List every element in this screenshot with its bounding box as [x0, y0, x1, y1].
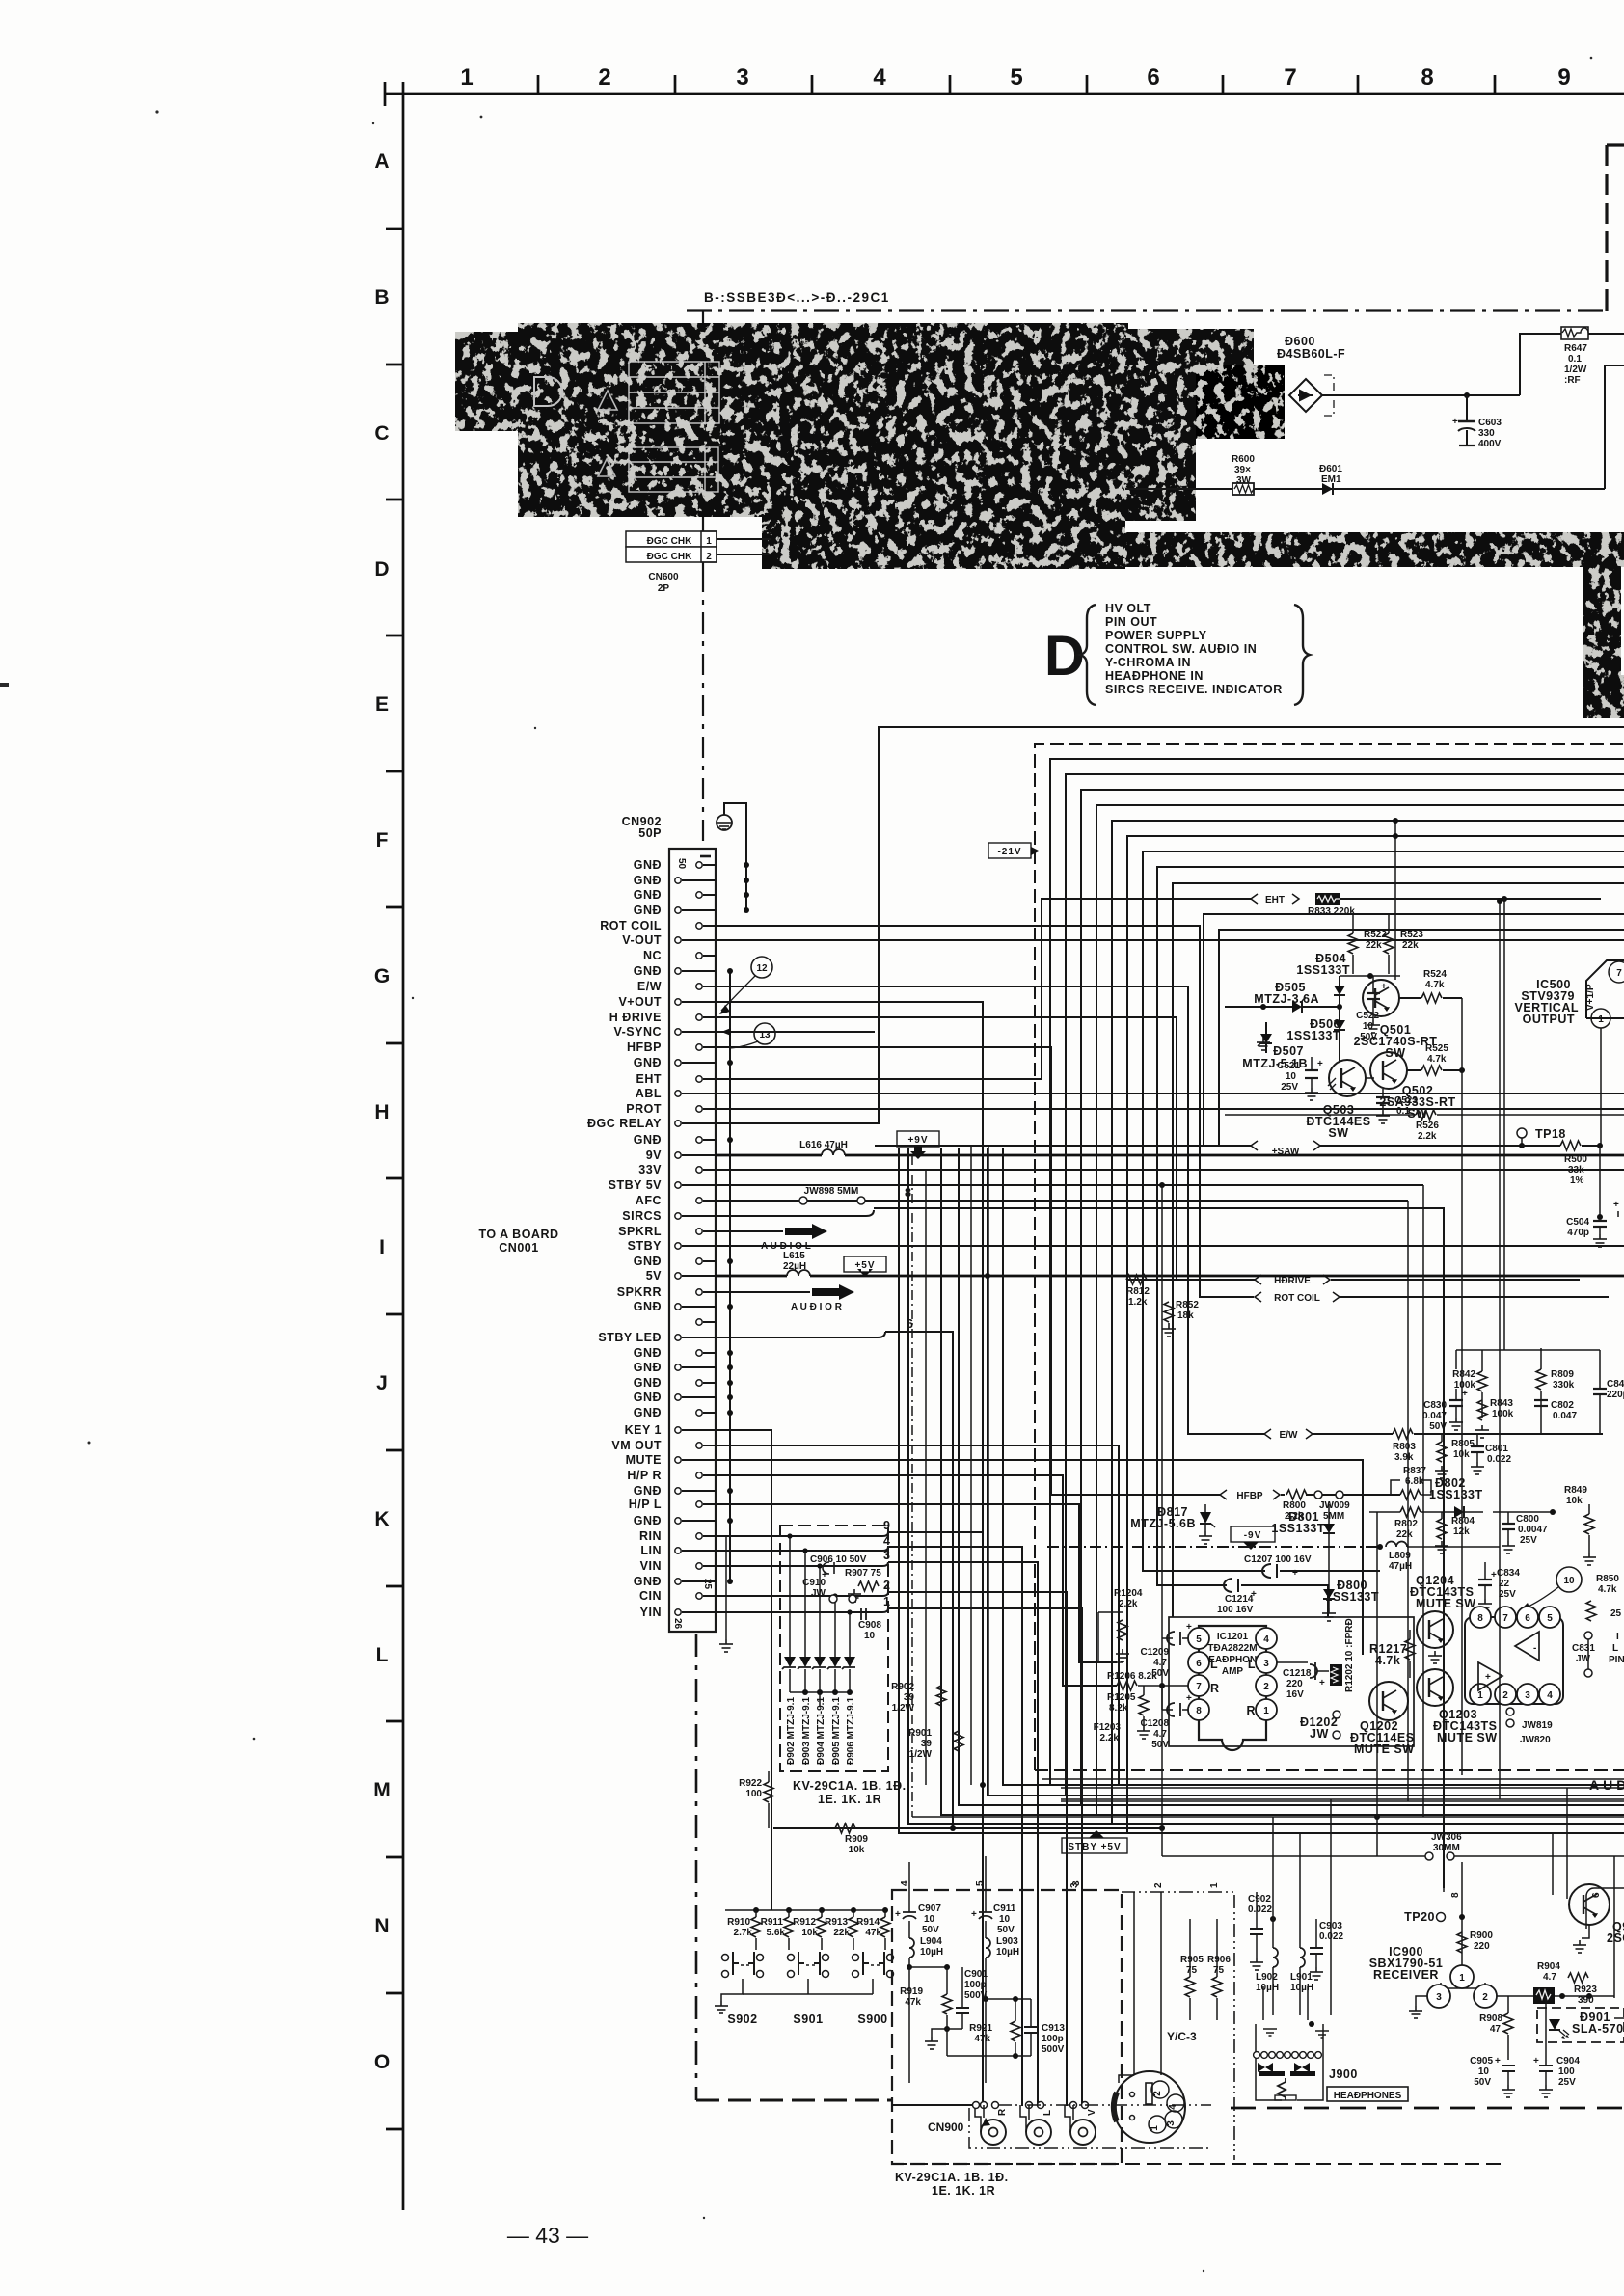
svg-text:L904: L904	[920, 1936, 942, 1947]
svg-text:C901: C901	[964, 1969, 988, 1980]
svg-text:8.2k: 8.2k	[1109, 1703, 1128, 1714]
svg-text:N: N	[374, 1915, 389, 1937]
svg-text:220pF: 220pF	[1607, 1390, 1624, 1400]
svg-text:R: R	[1210, 1682, 1220, 1695]
svg-text:R647: R647	[1564, 343, 1587, 354]
svg-text:3.9k: 3.9k	[1394, 1452, 1414, 1463]
wire trunk x1447	[1394, 821, 1396, 980]
dash-dot jack bus	[998, 2104, 1211, 2106]
svg-text:Ð903 MTZJ-9.1: Ð903 MTZJ-9.1	[801, 1697, 812, 1765]
svg-text:YIN: YIN	[640, 1606, 662, 1619]
svg-text:9V: 9V	[646, 1148, 662, 1162]
faint D letter	[534, 377, 562, 406]
wire row y1868	[1061, 1800, 1624, 1802]
wire trunk x1007	[970, 1146, 972, 1785]
svg-text:D: D	[1044, 625, 1085, 688]
svg-text:R902: R902	[891, 1682, 914, 1692]
svg-text:R843: R843	[1490, 1398, 1513, 1409]
resistor R914	[882, 1907, 888, 1913]
svg-text:22µH: 22µH	[783, 1261, 806, 1272]
wire ROT COIL	[716, 926, 1254, 1297]
svg-text:GNĐ: GNĐ	[634, 1514, 662, 1527]
svg-text:Y/C-3: Y/C-3	[1167, 2030, 1197, 2043]
svg-text:R907 75: R907 75	[845, 1568, 881, 1579]
svg-text:C906 10 50V: C906 10 50V	[810, 1554, 867, 1565]
svg-text:VM OUT: VM OUT	[611, 1439, 662, 1452]
svg-text:R919: R919	[900, 1986, 923, 1997]
svg-text:PIN-C: PIN-C	[1609, 1655, 1624, 1665]
svg-text:GNĐ: GNĐ	[634, 964, 662, 978]
svg-text:ROT COIL: ROT COIL	[600, 919, 662, 932]
svg-text:STBY 5V: STBY 5V	[609, 1178, 663, 1192]
svg-text:GNĐ: GNĐ	[634, 1484, 662, 1498]
svg-text:3W: 3W	[1236, 475, 1252, 486]
svg-text:PROT: PROT	[626, 1102, 662, 1116]
svg-text:50V: 50V	[1151, 1740, 1169, 1750]
svg-text:500V: 500V	[964, 1990, 988, 2001]
svg-text:4.7: 4.7	[1153, 1729, 1167, 1740]
svg-text:1SS133T: 1SS133T	[1429, 1488, 1483, 1501]
row letters	[373, 150, 391, 2073]
resistor R922	[739, 1771, 773, 1828]
svg-text:R909: R909	[845, 1834, 868, 1845]
svg-text:CIN: CIN	[639, 1589, 662, 1603]
svg-text:+: +	[1186, 1622, 1192, 1633]
svg-text:400V: 400V	[1478, 439, 1502, 449]
svg-text:GNĐ: GNĐ	[634, 858, 662, 872]
svg-text:C800: C800	[1516, 1514, 1539, 1525]
svg-text:1SS133T: 1SS133T	[1296, 963, 1350, 977]
svg-text:MUTE SW: MUTE SW	[1437, 1731, 1498, 1744]
bottom dashed edge	[892, 2163, 1504, 2165]
svg-text:STBY LEĐ: STBY LEĐ	[598, 1331, 662, 1344]
Y/C-3 dash-dot box	[1122, 1892, 1234, 2160]
svg-text:C1207 100 16V: C1207 100 16V	[1244, 1554, 1312, 1565]
svg-text:H: H	[374, 1101, 389, 1123]
svg-text:JW: JW	[1310, 1727, 1329, 1741]
resistor R805	[1437, 1442, 1447, 1462]
resistor R526	[1416, 1110, 1436, 1120]
svg-text:10: 10	[864, 1631, 876, 1641]
svg-text:0.047: 0.047	[1553, 1411, 1577, 1421]
svg-text:SIRCS RECEIVE. INÐICATOR: SIRCS RECEIVE. INÐICATOR	[1105, 683, 1283, 696]
wire loop y948	[1204, 914, 1624, 1146]
capacitor C1209	[1167, 1632, 1180, 1645]
svg-text:R524: R524	[1423, 969, 1447, 980]
capacitor C830	[1449, 1400, 1463, 1406]
svg-text:4: 4	[883, 1534, 890, 1548]
svg-text:0.047: 0.047	[1422, 1411, 1447, 1421]
wire bus y1892	[908, 1148, 1624, 1824]
svg-text:-21V: -21V	[997, 847, 1021, 857]
zener D906	[849, 1612, 851, 1657]
capacitor C800	[1502, 1524, 1515, 1529]
svg-text:R904: R904	[1537, 1961, 1560, 1972]
test point TP18	[1517, 1128, 1527, 1138]
dash-dot -9V rail	[1047, 1546, 1380, 1548]
ground stub left	[725, 1536, 727, 1639]
resistor R902	[936, 1686, 946, 1706]
resistor R852	[1164, 1302, 1174, 1322]
svg-text:GNĐ: GNĐ	[634, 1300, 662, 1313]
svg-text:R522: R522	[1364, 930, 1387, 940]
svg-text:R: R	[1246, 1704, 1256, 1717]
zener D903	[804, 1551, 806, 1657]
svg-text:MTZJ-3.6A: MTZJ-3.6A	[1254, 992, 1319, 1006]
svg-text:CN600: CN600	[648, 572, 679, 582]
svg-text:1: 1	[1459, 1973, 1465, 1984]
svg-text:2.2k: 2.2k	[1119, 1599, 1138, 1609]
svg-text:8: 8	[1450, 1892, 1461, 1898]
wire CIN	[716, 1595, 882, 1597]
svg-text:6: 6	[1147, 65, 1159, 91]
svg-text:JW306: JW306	[1431, 1832, 1462, 1843]
wire trunk x1205	[1161, 1185, 1163, 1828]
wire PROT	[716, 1108, 1624, 1110]
svg-text:2: 2	[1263, 1682, 1269, 1692]
svg-text:10: 10	[924, 1914, 935, 1925]
blob main polygon	[455, 323, 1624, 718]
svg-text:12: 12	[756, 963, 768, 974]
svg-text:5: 5	[975, 1880, 986, 1886]
svg-text:KEY 1: KEY 1	[625, 1423, 662, 1437]
svg-text:ABL: ABL	[636, 1087, 662, 1100]
boundary bottom dashes to CN900 box	[696, 2099, 892, 2102]
wire SIRCS	[716, 1215, 866, 1217]
left ruler ticks	[386, 229, 403, 2129]
svg-text:330k: 330k	[1553, 1380, 1575, 1391]
capacitor C523	[1376, 1097, 1390, 1103]
node at C603	[1464, 392, 1470, 398]
wire 5V with L615	[716, 1275, 787, 1278]
svg-text:GNĐ: GNĐ	[634, 1376, 662, 1390]
svg-text:V-OUT: V-OUT	[622, 933, 662, 947]
wire loop x1105	[1066, 774, 1624, 1796]
wire H/P R	[716, 1475, 1117, 1686]
svg-text:1.2k: 1.2k	[1128, 1297, 1148, 1308]
transistor Q501	[1363, 980, 1399, 1016]
svg-text:HV OLT: HV OLT	[1105, 602, 1151, 615]
svg-text:GNĐ: GNĐ	[634, 1133, 662, 1147]
svg-text:1/2W: 1/2W	[892, 1703, 915, 1714]
svg-text:ĐGC RELAY: ĐGC RELAY	[587, 1117, 662, 1130]
svg-text:L903: L903	[996, 1936, 1018, 1947]
svg-text:3: 3	[1525, 1690, 1530, 1701]
svg-text:Ð4SB60L-F: Ð4SB60L-F	[1277, 347, 1345, 361]
wire bus y1882	[941, 1148, 1624, 1815]
svg-text:4: 4	[1263, 1634, 1269, 1645]
wire +SAW	[875, 1145, 1252, 1147]
svg-text:-9V: -9V	[1244, 1530, 1262, 1541]
svg-text:JW820: JW820	[1520, 1735, 1551, 1745]
svg-text:R842: R842	[1452, 1369, 1475, 1380]
svg-text:100p: 100p	[964, 1980, 987, 1990]
svg-text:LIN: LIN	[640, 1544, 662, 1557]
receiver symbol	[1441, 1983, 1485, 1988]
svg-text:R913: R913	[825, 1917, 848, 1928]
svg-text:5: 5	[1196, 1634, 1202, 1645]
wire 33V	[716, 1169, 1624, 1171]
svg-text:3: 3	[736, 65, 748, 91]
svg-text:220: 220	[1286, 1679, 1303, 1689]
svg-text:18k: 18k	[1177, 1310, 1194, 1321]
svg-text:500V: 500V	[1042, 2044, 1065, 2055]
svg-text:10µH: 10µH	[1290, 1983, 1313, 1993]
IC1201 pins	[1188, 1628, 1209, 1649]
svg-text:GNĐ: GNĐ	[634, 888, 662, 902]
svg-text:C802: C802	[1551, 1400, 1574, 1411]
svg-text:9: 9	[883, 1519, 890, 1532]
svg-text:GNĐ: GNĐ	[634, 1361, 662, 1374]
zener D904	[819, 1566, 821, 1657]
svg-text:GNĐ: GNĐ	[634, 1406, 662, 1419]
svg-text:C908: C908	[858, 1620, 881, 1631]
svg-text:+: +	[1292, 1568, 1298, 1579]
svg-text:A: A	[374, 150, 389, 173]
svg-text:C907: C907	[918, 1904, 941, 1914]
wires from CN600	[717, 538, 771, 540]
svg-text:25V: 25V	[1558, 2077, 1576, 2088]
svg-text:GNĐ: GNĐ	[634, 1255, 662, 1268]
svg-text:L: L	[1248, 1658, 1256, 1671]
wire STBY+5V	[773, 1827, 1162, 1829]
svg-text:MUTE SW: MUTE SW	[1416, 1597, 1476, 1610]
svg-text:1SS133T: 1SS133T	[1271, 1522, 1325, 1535]
svg-text:+9V: +9V	[907, 1135, 928, 1146]
svg-text:C830: C830	[1423, 1400, 1447, 1411]
wire loop x1169	[1127, 836, 1624, 1833]
svg-text:C504: C504	[1566, 1217, 1589, 1228]
wire HFBP	[716, 1047, 1221, 1495]
svg-text:25: 25	[702, 1579, 713, 1590]
svg-text:47k: 47k	[865, 1928, 881, 1938]
svg-text:1: 1	[460, 65, 473, 91]
capacitor C834	[1478, 1580, 1492, 1585]
svg-text:Ð905 MTZJ-9.1: Ð905 MTZJ-9.1	[831, 1697, 842, 1765]
svg-text:R900: R900	[1470, 1931, 1493, 1941]
wire Y/C pin3	[1133, 1892, 1135, 2075]
svg-text:10k: 10k	[801, 1928, 818, 1938]
svg-text:CN900: CN900	[928, 2120, 964, 2134]
node 12	[751, 957, 772, 978]
svg-text:V: V	[1087, 2109, 1097, 2116]
svg-text:C603: C603	[1478, 418, 1502, 428]
svg-text:3: 3	[1166, 2120, 1177, 2126]
svg-text:5V: 5V	[646, 1269, 662, 1283]
svg-text:9: 9	[1557, 65, 1570, 91]
svg-text:H/P R: H/P R	[627, 1469, 662, 1482]
svg-text:R805: R805	[1451, 1439, 1475, 1449]
svg-text:+: +	[1495, 2056, 1501, 2066]
svg-text:EM1: EM1	[1321, 474, 1341, 485]
resistor R843	[1477, 1400, 1487, 1420]
svg-text:HEAÐPHONE IN: HEAÐPHONE IN	[1105, 669, 1204, 683]
inductor L901	[1300, 1948, 1305, 1967]
wire bus y1862	[988, 1148, 1624, 1796]
svg-text:I: I	[379, 1236, 385, 1258]
wire loop x1216	[1173, 883, 1624, 1617]
svg-text:R812: R812	[1126, 1286, 1150, 1297]
top border line	[385, 93, 1624, 95]
wire DGC RELAY outer loop	[716, 727, 1624, 1123]
svg-text:7: 7	[1616, 968, 1622, 979]
svg-text::RF: :RF	[1564, 375, 1581, 386]
svg-text:220: 220	[1474, 1941, 1490, 1952]
svg-text:J: J	[376, 1372, 388, 1394]
svg-text:L615: L615	[783, 1251, 805, 1261]
svg-text:R526: R526	[1416, 1121, 1439, 1131]
svg-text:C905: C905	[1470, 2056, 1493, 2066]
node 13	[754, 1023, 775, 1044]
svg-text:IC1201: IC1201	[1217, 1632, 1249, 1642]
wire drop x1610	[1552, 1833, 1554, 1895]
long dash line bottom right	[1231, 2107, 1624, 2110]
svg-text:+: +	[1452, 417, 1458, 427]
pin 31 nc	[696, 1319, 702, 1325]
svg-text:Ð902 MTZJ-9.1: Ð902 MTZJ-9.1	[786, 1697, 797, 1765]
svg-text:8: 8	[1477, 1613, 1483, 1624]
svg-text:SLA-570KT: SLA-570KT	[1572, 2022, 1624, 2036]
wire STBY	[716, 1245, 1624, 1247]
svg-text:C1208: C1208	[1141, 1718, 1170, 1729]
svg-text:S901: S901	[793, 2012, 823, 2026]
svg-text:50V: 50V	[922, 1925, 939, 1935]
resistor R913	[851, 1907, 856, 1913]
connector CN902 50P	[587, 815, 716, 1632]
svg-text:22k: 22k	[1366, 940, 1382, 951]
inductor L902	[1273, 1948, 1278, 1967]
RCA jack R	[981, 2120, 1006, 2145]
wires jacks drop	[983, 2105, 985, 2118]
svg-text:Ð904 MTZJ-9.1: Ð904 MTZJ-9.1	[816, 1697, 826, 1765]
DGC CHK box 2	[626, 547, 717, 562]
outer box amp	[1169, 1617, 1414, 1746]
wire bridge to right	[1322, 394, 1520, 396]
svg-text:C1209: C1209	[1141, 1647, 1170, 1658]
svg-text:5: 5	[1547, 1613, 1553, 1624]
diode D507	[1260, 1034, 1272, 1043]
svg-text:GNĐ: GNĐ	[634, 874, 662, 887]
svg-text:V+1/P: V+1/P	[1585, 984, 1596, 1011]
capacitor C603	[1452, 395, 1502, 449]
zener D902	[789, 1536, 791, 1657]
inductor L903	[986, 1938, 990, 1958]
svg-text:25V: 25V	[1499, 1589, 1516, 1600]
svg-text:33k: 33k	[1568, 1165, 1584, 1175]
svg-text:R906: R906	[1207, 1955, 1231, 1965]
wire up right side to off-page	[1605, 365, 1624, 489]
node 10	[1556, 1567, 1582, 1592]
svg-text:K: K	[374, 1508, 389, 1530]
svg-text:25V: 25V	[1281, 1082, 1298, 1093]
svg-text:ÐGC CHK: ÐGC CHK	[647, 552, 692, 562]
svg-text:R849: R849	[1564, 1485, 1587, 1496]
svg-text:H ĐRIVE: H ĐRIVE	[609, 1011, 662, 1024]
svg-text:PIN OUT: PIN OUT	[1105, 615, 1157, 629]
svg-text:+: +	[1186, 1693, 1192, 1704]
wire LIN	[716, 1550, 882, 1552]
svg-text:L: L	[376, 1644, 389, 1666]
HEADPHONES tag	[1327, 2087, 1408, 2101]
wire loop x1089	[1050, 759, 1624, 1785]
wire E/W	[716, 986, 1265, 1434]
svg-text:7: 7	[1284, 65, 1296, 91]
svg-text:R905: R905	[1180, 1955, 1204, 1965]
LED D901	[1549, 2019, 1560, 2030]
svg-text:L: L	[1042, 2110, 1053, 2116]
svg-text:1: 1	[1477, 1690, 1483, 1701]
resistor R842	[1477, 1371, 1487, 1391]
resistor R923	[1568, 1973, 1588, 1983]
wire trunk x960	[925, 1170, 927, 1785]
svg-text:1: 1	[706, 536, 712, 547]
svg-text:1: 1	[1150, 2125, 1160, 2131]
svg-text:2: 2	[1152, 2091, 1163, 2096]
svg-text:2.2k: 2.2k	[1418, 1131, 1437, 1142]
svg-text:F: F	[376, 829, 389, 851]
svg-text:STBY: STBY	[628, 1239, 663, 1253]
svg-text:10µH: 10µH	[996, 1947, 1019, 1958]
svg-text:0.022: 0.022	[1248, 1904, 1272, 1915]
wire V+OUT	[716, 1002, 983, 1785]
svg-text:GNĐ: GNĐ	[634, 1391, 662, 1404]
wire bus y1901	[899, 1148, 1624, 1833]
wire SPKRR AUDIO R arrow	[716, 1291, 810, 1293]
transistor Q503	[1329, 1060, 1366, 1096]
svg-text:C: C	[374, 422, 389, 445]
svg-text:R: R	[997, 2108, 1008, 2116]
capacitor C802	[1534, 1400, 1548, 1406]
svg-text:POWER SUPPLY: POWER SUPPLY	[1105, 629, 1207, 642]
svg-text:R912: R912	[793, 1917, 816, 1928]
wire STBY 5V	[716, 1184, 1423, 1186]
svg-text:C1214: C1214	[1225, 1594, 1254, 1605]
capacitor C908	[861, 1608, 866, 1620]
svg-text:4: 4	[873, 65, 886, 91]
svg-text:SIRCS: SIRCS	[622, 1209, 662, 1223]
svg-text:TP18: TP18	[1535, 1127, 1566, 1141]
resistor R647 (boxed)	[1561, 327, 1624, 386]
capacitor C522	[1367, 993, 1380, 999]
svg-text:G: G	[374, 965, 390, 987]
wire trunk x1516	[1461, 998, 1463, 1775]
svg-text:-: -	[1533, 1643, 1536, 1654]
svg-text:ÐGC CHK: ÐGC CHK	[647, 536, 692, 547]
resistor R910	[753, 1907, 759, 1913]
svg-text:Ð601: Ð601	[1319, 464, 1342, 474]
svg-text:100: 100	[745, 1789, 762, 1799]
svg-text:GNĐ: GNĐ	[634, 1346, 662, 1360]
svg-text:8: 8	[1196, 1706, 1202, 1716]
svg-text:16V: 16V	[1286, 1689, 1304, 1700]
svg-text:7: 7	[1502, 1613, 1508, 1624]
svg-text:KV-29C1A. 1B. 1Ð.: KV-29C1A. 1B. 1Ð.	[895, 2171, 1009, 2184]
inductor L809	[1386, 1542, 1407, 1547]
svg-text:22k: 22k	[833, 1928, 850, 1938]
svg-text:R525: R525	[1425, 1043, 1448, 1054]
svg-text:+: +	[1319, 1678, 1325, 1688]
svg-text:+: +	[1613, 1200, 1619, 1210]
svg-text:390: 390	[1578, 1995, 1594, 2006]
svg-text:3: 3	[1436, 1992, 1442, 2003]
dashed loop -21V	[1035, 744, 1624, 1770]
faint white pin-table 1 inside blob	[629, 362, 719, 423]
svg-text:VIN: VIN	[640, 1559, 662, 1573]
ground bus top pins	[724, 803, 746, 865]
svg-text:6: 6	[1196, 1659, 1202, 1669]
svg-text:S900: S900	[857, 2012, 887, 2026]
svg-text:2.7k: 2.7k	[734, 1928, 753, 1938]
